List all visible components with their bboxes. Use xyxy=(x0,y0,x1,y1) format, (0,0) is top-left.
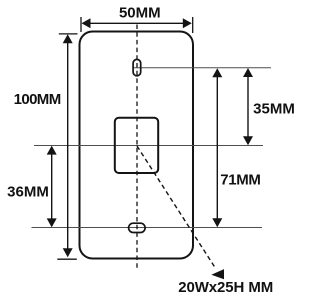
extension line B (cutout centre, y=145.5) xyxy=(34,145,263,147)
dimension 35MM arrow top xyxy=(243,68,253,77)
dimension 50MM arrow right xyxy=(183,18,192,28)
svg-text:100MM: 100MM xyxy=(14,91,61,108)
svg-text:20Wx25H MM: 20Wx25H MM xyxy=(178,279,273,296)
svg-text:36MM: 36MM xyxy=(7,183,49,200)
extension line A (screw-slot centre, y=67.8) xyxy=(133,67,271,69)
dimension 50MM line xyxy=(84,22,189,24)
dimension 71MM arrow bottom xyxy=(212,218,222,227)
dimension 100MM line xyxy=(67,38,69,253)
dimension 71MM line xyxy=(216,71,218,226)
dimension 71MM arrow top xyxy=(212,68,222,77)
extension tick 50MM left xyxy=(80,17,82,32)
plate outline xyxy=(80,32,194,259)
extension tick 100MM top xyxy=(59,33,78,35)
svg-text:50MM: 50MM xyxy=(119,5,161,22)
dimension 100MM arrow bottom xyxy=(63,248,73,257)
centerline (dashed vertical) xyxy=(136,25,138,269)
dimension 36MM arrow bottom xyxy=(47,218,57,227)
bottom screw slot xyxy=(129,223,146,232)
extension tick 50MM right xyxy=(192,17,194,33)
extension line C (bottom slot centre, y=227.5) xyxy=(32,227,263,229)
dimension 50MM arrow left xyxy=(82,18,91,28)
svg-text:35MM: 35MM xyxy=(253,101,295,118)
svg-text:71MM: 71MM xyxy=(220,171,260,188)
dimension 36MM arrow top xyxy=(47,146,57,155)
extension tick 100MM bottom xyxy=(57,258,77,260)
dimension 35MM arrow bottom xyxy=(243,136,253,145)
dimension 35MM line xyxy=(247,71,249,144)
centre rectangle cutout 20x25 xyxy=(115,118,158,173)
dimension 36MM line xyxy=(51,148,53,225)
top screw slot xyxy=(133,59,141,75)
dimension 100MM arrow top xyxy=(63,34,73,43)
leader dashed line to cutout xyxy=(137,146,215,268)
leader arrowhead xyxy=(211,269,224,279)
